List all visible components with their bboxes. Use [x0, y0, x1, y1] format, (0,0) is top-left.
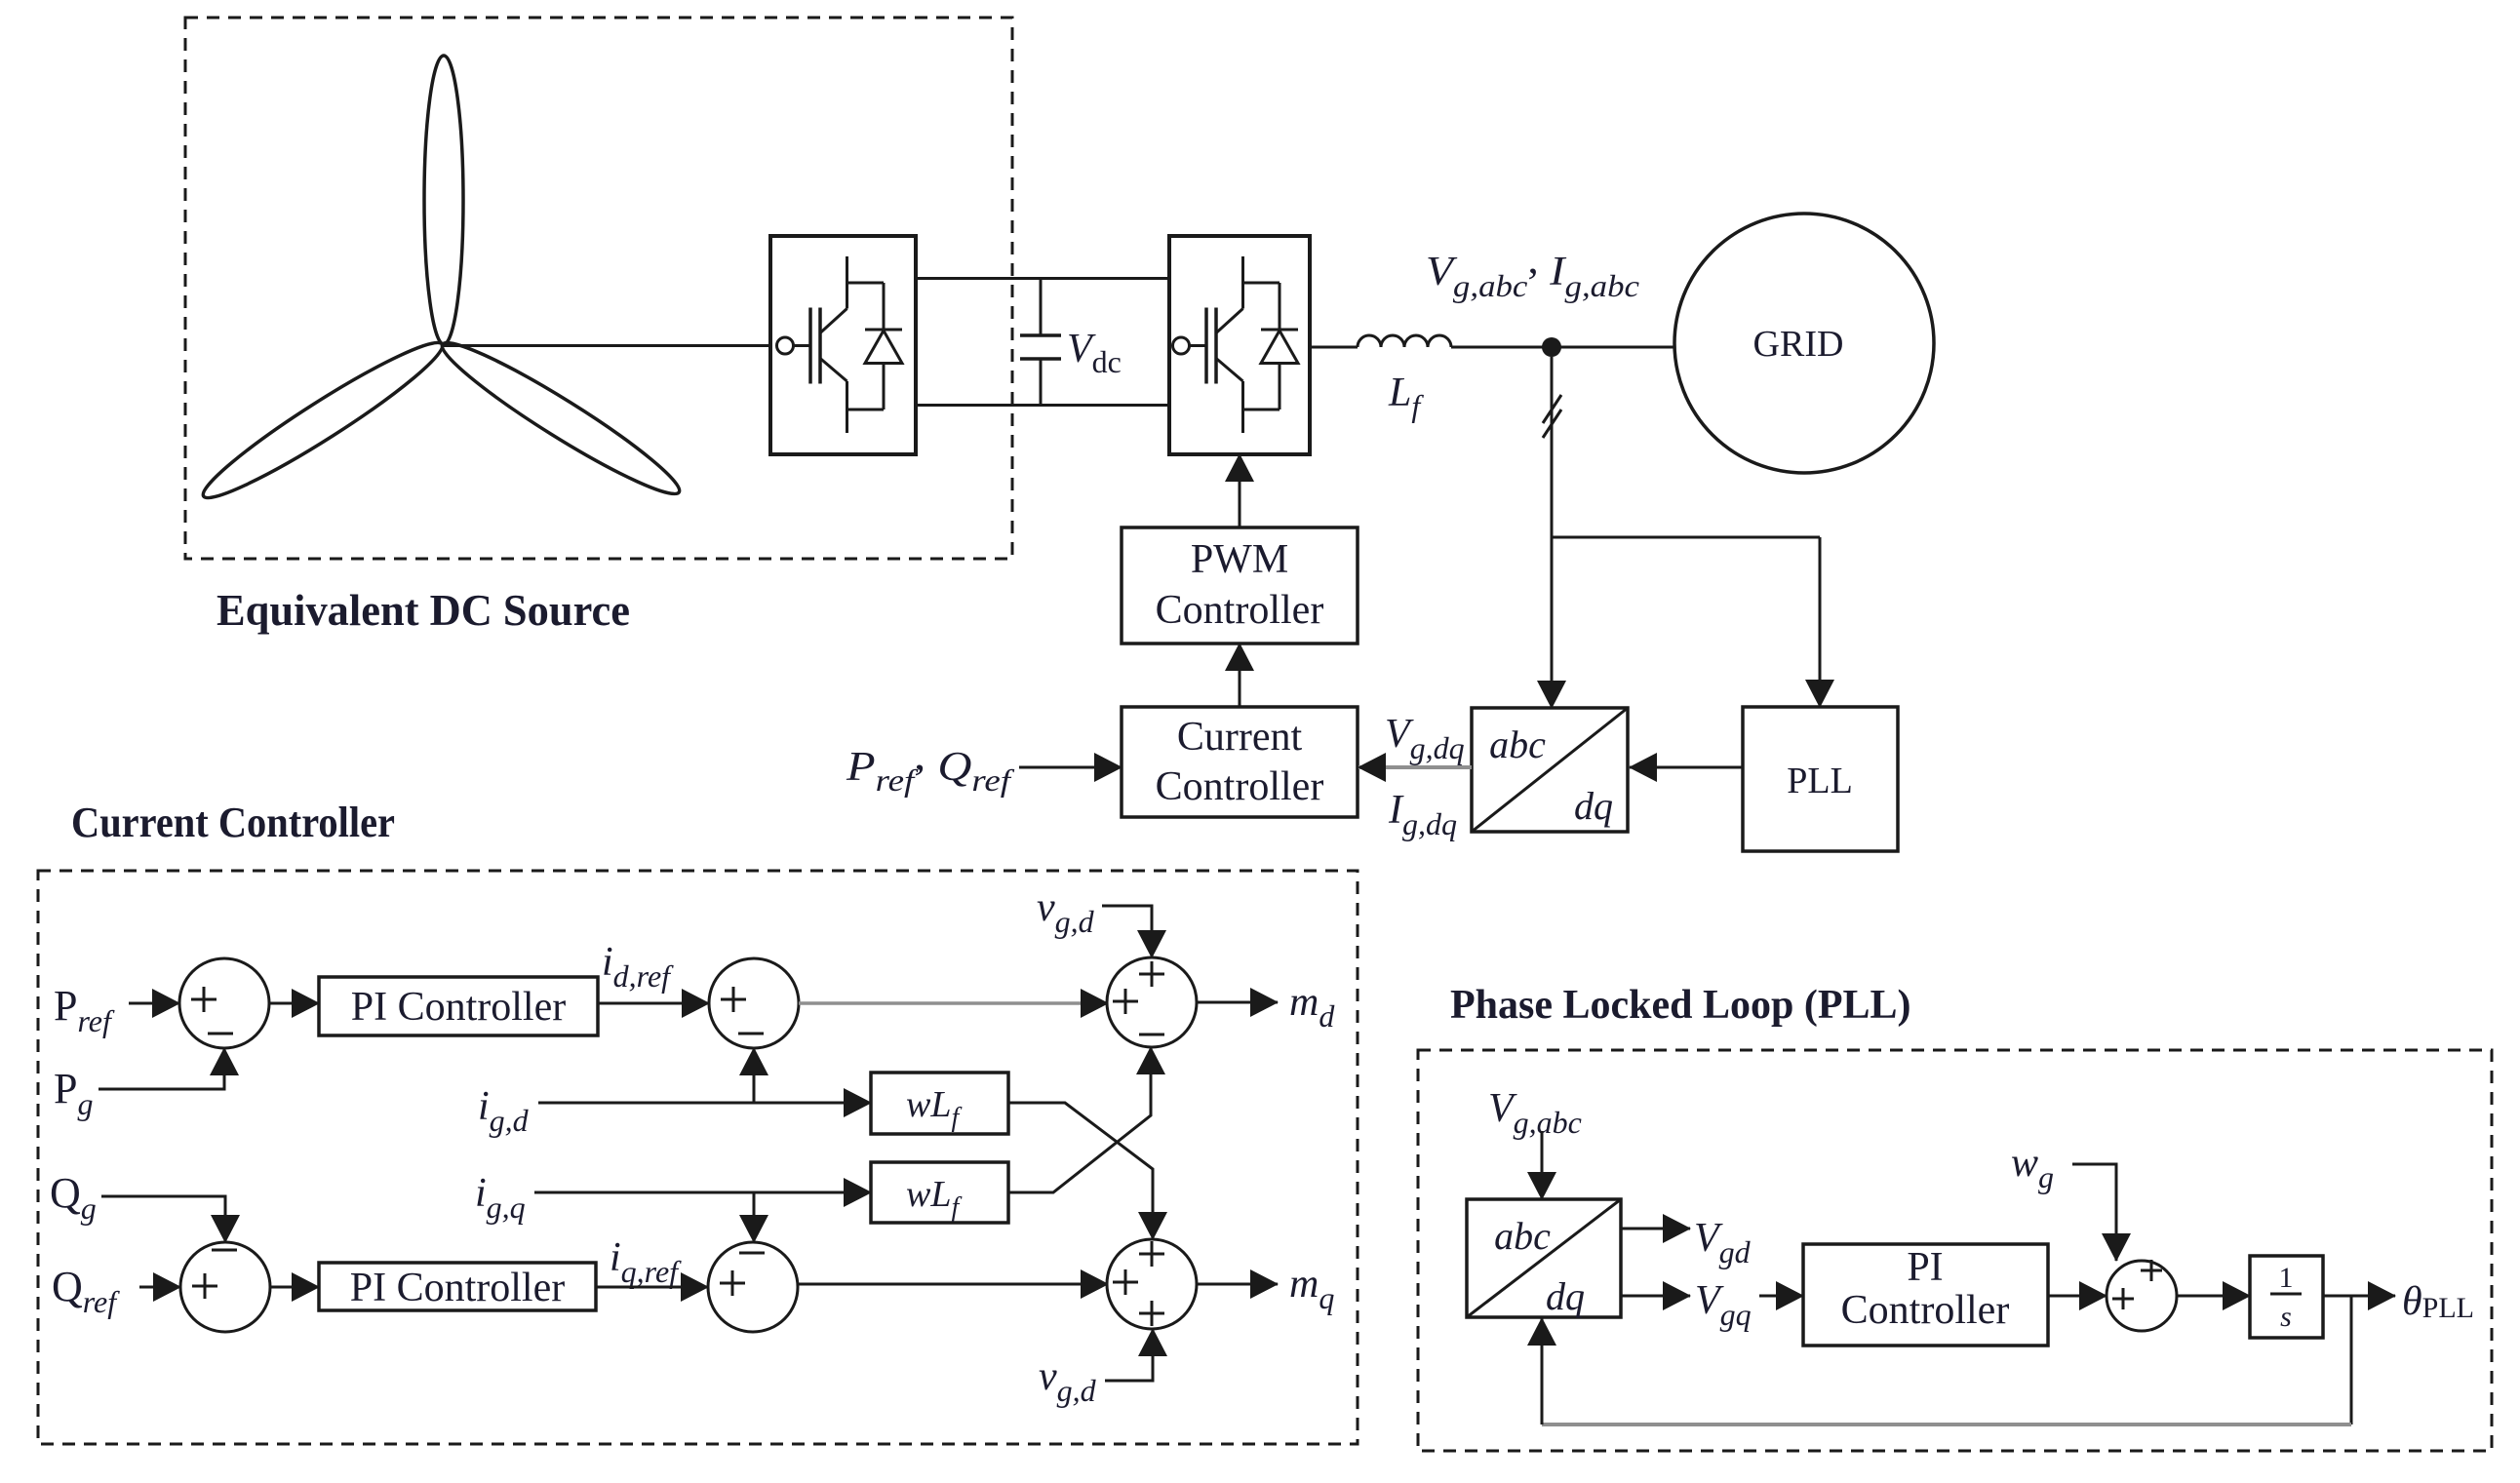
svg-text:Current Controller: Current Controller [71, 799, 395, 846]
svg-text:abc: abc [1494, 1214, 1551, 1258]
svg-text:PI: PI [1907, 1245, 1943, 1290]
svg-text:PWM: PWM [1191, 537, 1288, 582]
svg-text:PLL: PLL [1787, 761, 1853, 801]
svg-text:Controller: Controller [1156, 588, 1324, 633]
svg-text:Equivalent DC Source: Equivalent DC Source [217, 585, 630, 635]
svg-text:1: 1 [2279, 1262, 2294, 1294]
svg-text:PI Controller: PI Controller [350, 1266, 565, 1310]
svg-text:Current: Current [1177, 715, 1303, 760]
svg-text:Controller: Controller [1156, 764, 1324, 809]
svg-text:Controller: Controller [1841, 1288, 2010, 1333]
svg-text:GRID: GRID [1753, 324, 1844, 365]
svg-text:Phase Locked Loop (PLL): Phase Locked Loop (PLL) [1450, 983, 1911, 1028]
svg-text:dq: dq [1574, 784, 1613, 828]
svg-text:s: s [2280, 1301, 2292, 1333]
svg-text:dq: dq [1546, 1274, 1585, 1318]
svg-text:PI Controller: PI Controller [351, 985, 566, 1030]
svg-text:abc: abc [1489, 722, 1546, 766]
